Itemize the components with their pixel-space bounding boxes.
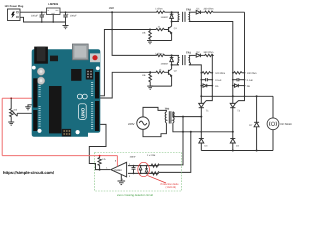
- svg-text:D7: D7: [249, 124, 253, 127]
- wire W2 upper: 5V down to channel2 feed: [112, 12, 155, 55]
- power plug J1: [8, 9, 21, 21]
- svg-text:10k: 10k: [142, 74, 146, 77]
- protection diode Db: [145, 166, 148, 174]
- regulator: [50, 56, 58, 62]
- svg-text:Zero crossing detector circuit: Zero crossing detector circuit: [117, 193, 153, 197]
- ground rail: [42, 21, 66, 23]
- svg-text:TR2: TR2: [186, 9, 191, 12]
- motor rail: [272, 96, 274, 118]
- T1 column: [200, 73, 202, 104]
- svg-text:100nF: 100nF: [130, 156, 137, 159]
- svg-text:LM393: LM393: [114, 169, 122, 172]
- opamp input pins: [128, 165, 159, 167]
- red highlight ellipse: [138, 162, 150, 176]
- svg-text:220V: 220V: [128, 122, 135, 126]
- svg-text:1 Ohm: 1 Ohm: [155, 8, 162, 11]
- ground symbol arduino: [25, 107, 31, 110]
- T2 column: [232, 73, 234, 104]
- silkscreen pin labels right: [91, 82, 93, 129]
- silkscreen pin labels left: [39, 85, 41, 127]
- svg-text:T2: T2: [237, 109, 240, 112]
- usb connector: [72, 44, 88, 60]
- T1 gate rail: [203, 73, 213, 105]
- icsp header top: [86, 69, 93, 80]
- silver cap 2: [37, 77, 45, 85]
- svg-text:330 Ohm: 330 Ohm: [204, 8, 214, 11]
- svg-text:8: 8: [115, 160, 117, 163]
- wiper wire to A0: [17, 112, 37, 114]
- svg-text:D6: D6: [247, 85, 251, 88]
- svg-text:D5: D5: [215, 85, 219, 88]
- wire AC top to TR3 primary: [143, 107, 166, 117]
- svg-text:100 Ohm: 100 Ohm: [215, 72, 225, 75]
- svg-text:+5V: +5V: [109, 6, 114, 10]
- ground symbol ch1: [147, 41, 153, 44]
- svg-text:T1: T1: [206, 109, 209, 112]
- reset button: [90, 53, 100, 62]
- wire plug+ to regulator input: [20, 11, 47, 13]
- icsp header bottom: [62, 129, 71, 137]
- power jack: [34, 47, 48, 64]
- board pcb: [32, 49, 101, 137]
- red callout line: [148, 176, 166, 183]
- ground symbol pot: [8, 122, 14, 125]
- wire ch1 secondary bottom to T2 column: [189, 22, 233, 73]
- wire plug- to ground rail: [20, 17, 42, 22]
- silver cap 1: [37, 68, 45, 76]
- svg-text:in: in: [48, 9, 50, 12]
- svg-text:1N4007: 1N4007: [161, 16, 169, 19]
- svg-text:LM7805: LM7805: [48, 3, 58, 6]
- atmega chip: [49, 86, 62, 133]
- svg-text:10k: 10k: [142, 31, 146, 34]
- svg-text:12V Power Plug: 12V Power Plug: [5, 5, 24, 8]
- DC motor M1: [267, 118, 279, 130]
- arduino logo infinity: [77, 94, 87, 99]
- wire regulator gnd: [52, 15, 54, 23]
- capacitor C2 100uF: [63, 12, 67, 22]
- svg-text:DC Motor: DC Motor: [281, 123, 293, 126]
- wire arduino gnd: [28, 105, 35, 107]
- svg-text:10k: 10k: [13, 109, 17, 112]
- svg-text:4.7k: 4.7k: [102, 158, 107, 161]
- mounting hole bottom-left: [37, 129, 41, 133]
- svg-text:1N4007: 1N4007: [161, 63, 169, 66]
- svg-text:100uF: 100uF: [31, 14, 38, 17]
- wire ZCD tap lower: [159, 132, 191, 173]
- svg-text:3: 3: [129, 175, 131, 178]
- green dashed box: [95, 153, 182, 192]
- svg-text:out: out: [56, 9, 59, 12]
- svg-text:0.1uF: 0.1uF: [215, 79, 222, 82]
- mounting hole top-left: [32, 66, 36, 70]
- UNO label: [79, 104, 87, 120]
- bottom bus: [201, 150, 273, 152]
- svg-text:D3: D3: [205, 144, 209, 147]
- ground symbol power: [63, 22, 69, 29]
- svg-text:(1N4148): (1N4148): [166, 186, 177, 189]
- mounting hole top-right: [96, 66, 100, 70]
- wire TR3 secondary top to T1 cathode: [173, 112, 201, 117]
- top bus: [201, 95, 273, 97]
- svg-text:100 Ohm: 100 Ohm: [247, 72, 257, 75]
- wire ZCD tap upper: [159, 117, 183, 165]
- resistor R11 220k lower: [150, 172, 158, 175]
- svg-text:TR3: TR3: [165, 107, 170, 110]
- wire ch2 gate down to T1 gate rail: [211, 55, 214, 72]
- svg-text:https://simple-circuit.com/: https://simple-circuit.com/: [3, 170, 55, 175]
- left header lower: [33, 110, 37, 131]
- wire W1: arduino pin D8 up to channel1 base: [98, 30, 151, 96]
- mounting hole bottom-right: [76, 130, 80, 134]
- red wire 5V loop: [2, 98, 117, 166]
- wire ch2 secondary bottom to T1 column: [189, 65, 201, 73]
- svg-text:+: +: [43, 13, 45, 16]
- svg-text:TR1: TR1: [186, 52, 191, 55]
- svg-text:4: 4: [122, 178, 124, 181]
- capacitor C1 100uF: [40, 12, 44, 22]
- freewheel diode rail: [256, 96, 258, 122]
- T2 gate rail: [234, 73, 244, 105]
- svg-text:1: 1: [106, 166, 108, 169]
- svg-text:UNO: UNO: [81, 107, 86, 118]
- svg-text:0.1uF: 0.1uF: [247, 79, 254, 82]
- wire TR3 secondary bottom to T2 cathode: [173, 123, 233, 132]
- svg-text:2 x 220k: 2 x 220k: [147, 154, 156, 157]
- svg-text:Q2: Q2: [174, 70, 178, 73]
- wire ch1 gate down to T2 gate rail: [244, 12, 246, 73]
- usb interface chip: [71, 69, 81, 81]
- ground symbol opamp: [118, 181, 126, 185]
- wire emitter ch2 to ground: [150, 85, 171, 87]
- right header lower: [95, 101, 99, 131]
- ground symbol ch2: [147, 86, 153, 89]
- wire AC bottom to TR3 primary: [143, 123, 166, 137]
- svg-text:+: +: [67, 13, 69, 16]
- left header upper: [33, 78, 37, 107]
- svg-text:D1: D1: [197, 8, 201, 11]
- svg-text:Q1: Q1: [174, 27, 178, 30]
- svg-text:100uF: 100uF: [70, 14, 77, 17]
- wire emitter ch1 to ground: [150, 40, 172, 42]
- wire W3: arduino pin to opamp output: [89, 124, 106, 169]
- right header upper: [95, 72, 99, 99]
- +5V rail: [60, 11, 156, 13]
- svg-text:1k: 1k: [159, 68, 162, 71]
- svg-text:D4: D4: [236, 144, 240, 147]
- protection diode Da: [139, 166, 142, 174]
- opamp V- pin to ground: [120, 175, 122, 182]
- wire W2 lower: arduino pin to channel2 base: [98, 72, 151, 98]
